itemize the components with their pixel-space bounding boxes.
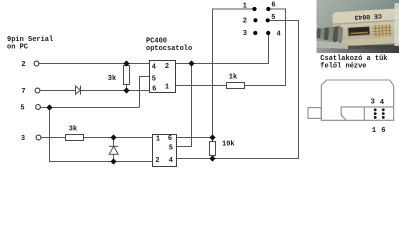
svg-text:1: 1 — [165, 83, 169, 91]
svg-text:2: 2 — [155, 157, 159, 165]
svg-text:3k: 3k — [108, 75, 116, 83]
svg-text:optocsatolo: optocsatolo — [146, 45, 192, 53]
svg-text:5: 5 — [271, 14, 275, 22]
svg-text:2: 2 — [243, 17, 247, 25]
svg-text:7: 7 — [21, 88, 25, 96]
svg-text:on PC: on PC — [7, 44, 28, 52]
svg-text:1: 1 — [156, 136, 160, 144]
svg-text:6: 6 — [168, 135, 172, 143]
svg-text:felől nézve: felől nézve — [320, 62, 366, 70]
svg-text:5: 5 — [20, 105, 24, 113]
svg-text:1: 1 — [243, 2, 247, 10]
svg-text:1: 1 — [372, 127, 376, 135]
svg-text:3: 3 — [243, 30, 247, 38]
svg-text:2: 2 — [21, 61, 25, 69]
svg-text:1k: 1k — [229, 74, 237, 82]
svg-text:3k: 3k — [69, 126, 77, 134]
svg-text:6: 6 — [271, 2, 275, 10]
svg-text:2: 2 — [165, 63, 169, 71]
svg-text:10k: 10k — [222, 141, 235, 149]
svg-text:5: 5 — [152, 75, 156, 83]
svg-text:4: 4 — [380, 99, 384, 107]
svg-text:6: 6 — [152, 86, 156, 94]
svg-text:4: 4 — [169, 157, 173, 165]
svg-text:4: 4 — [152, 63, 156, 71]
svg-text:6: 6 — [381, 127, 385, 135]
svg-text:5: 5 — [169, 145, 173, 153]
svg-text:3: 3 — [371, 99, 375, 107]
svg-text:3: 3 — [21, 135, 25, 143]
svg-text:4: 4 — [276, 31, 280, 39]
